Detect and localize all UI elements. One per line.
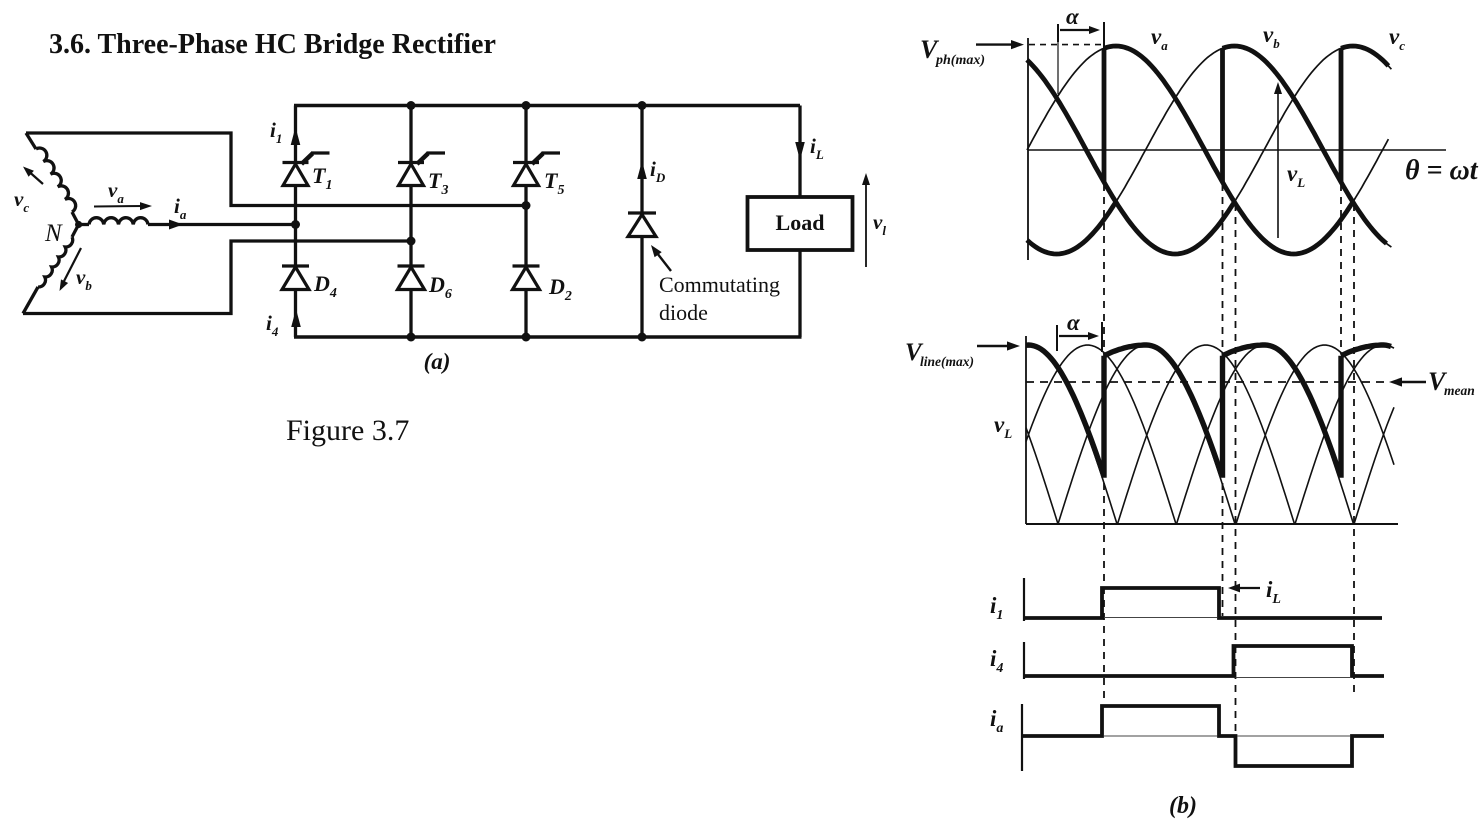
winding v_b (phase b coil)	[72, 225, 79, 238]
svg-text:iL: iL	[1266, 577, 1281, 607]
svg-text:vL: vL	[994, 412, 1012, 441]
i_4 waveform	[1024, 646, 1384, 676]
svg-text:vb: vb	[1263, 22, 1280, 51]
thin line-voltage humps	[1026, 428, 1058, 524]
svg-text:Load: Load	[776, 210, 825, 235]
curve thick v_a segment	[1104, 46, 1353, 254]
node: top rail junctions	[407, 101, 416, 110]
V_line(max) label and arrow	[977, 345, 1014, 347]
svg-text:3.6. Three-Phase HC Bridge Rec: 3.6. Three-Phase HC Bridge Rectifier	[49, 29, 496, 60]
svg-text:α: α	[1066, 4, 1080, 29]
svg-text:i1: i1	[990, 593, 1003, 623]
wire: negative bottom rail	[294, 335, 802, 339]
svg-text:Figure 3.7: Figure 3.7	[286, 414, 409, 447]
svg-text:vL: vL	[1287, 161, 1305, 190]
firing bars top plot	[1102, 48, 1107, 182]
svg-text:T3: T3	[428, 168, 448, 198]
label i_a with wire arrowhead	[169, 220, 183, 230]
curve v_b thin	[1027, 46, 1391, 254]
wire: commutating diode leg	[640, 106, 643, 338]
svg-text:i1: i1	[270, 118, 282, 146]
label: Commutating diode with pointer	[657, 253, 671, 271]
alpha marker top plot	[1057, 24, 1059, 42]
axis: top plot zero line theta axis	[1028, 149, 1446, 151]
svg-text:vl: vl	[873, 210, 886, 238]
node N (neutral)	[75, 221, 82, 228]
i_1 zero reference thin	[1104, 617, 1217, 619]
curve v_c thin	[1027, 46, 1391, 254]
svg-text:i4: i4	[266, 311, 279, 339]
dashed timing lines	[1103, 184, 1105, 704]
label v_L (load voltage) with arrow	[865, 178, 867, 267]
winding v_c (phase c coil)	[26, 133, 36, 149]
svg-text:D4: D4	[313, 271, 337, 301]
node: phase c to leg3	[522, 201, 531, 210]
node: phase b to leg2	[407, 237, 416, 246]
V_ph(max) label and arrow	[976, 43, 1018, 45]
wire: phase-b bottom wire from winding to bridge	[23, 241, 409, 314]
svg-text:i4: i4	[990, 646, 1003, 676]
wire: positive top rail	[294, 104, 800, 108]
label v_L with arrow (top plot)	[1277, 88, 1279, 238]
wire: bridge leg 1	[294, 106, 297, 338]
node: phase a to leg1	[291, 220, 300, 229]
curve thick v_b segments	[1027, 202, 1116, 254]
svg-text:θ = ωt: θ = ωt	[1405, 155, 1479, 186]
axis: middle plot vertical axis	[1025, 336, 1027, 524]
current arrow i_D	[637, 161, 647, 179]
wire: phase-a middle wire to bridge	[148, 223, 296, 226]
alpha marker middle plot	[1056, 325, 1058, 351]
svg-text:vb: vb	[76, 265, 92, 293]
svg-text:Commutating: Commutating	[659, 272, 780, 297]
curve thick v_c end segment	[1341, 46, 1388, 66]
commutating diode	[628, 215, 656, 237]
wire: load branch	[798, 106, 801, 198]
firing bars middle plot	[1101, 356, 1106, 478]
label i_L with arrow	[1234, 587, 1260, 589]
diode D4	[282, 266, 337, 301]
thyristor T3	[398, 153, 448, 198]
V_mean dashed level and label	[1026, 381, 1386, 383]
svg-text:diode: diode	[659, 300, 708, 325]
wire: bridge leg 2	[409, 106, 412, 338]
axis: middle plot baseline	[1026, 523, 1398, 525]
i_a zero reference thin	[1104, 735, 1217, 737]
thyristor T1	[283, 153, 333, 193]
i_1 waveform	[1024, 588, 1382, 618]
wire: phase-c top wire from winding to bridge	[26, 133, 524, 206]
svg-text:T5: T5	[544, 168, 564, 198]
curve v_L upper envelope thick v_c	[1027, 60, 1234, 254]
svg-text:D6: D6	[428, 272, 452, 302]
i_a waveform	[1022, 706, 1384, 766]
svg-text:va: va	[108, 178, 124, 206]
curve v_a thin	[1027, 46, 1388, 254]
svg-text:T1: T1	[312, 163, 332, 193]
svg-text:line(max): line(max)	[920, 354, 974, 369]
svg-text:vc: vc	[14, 187, 29, 215]
label v_a with arrow	[94, 205, 146, 208]
svg-text:α: α	[1067, 310, 1081, 335]
diode D2	[513, 266, 572, 304]
svg-text:va: va	[1151, 24, 1168, 53]
wire: bridge leg 3	[524, 106, 527, 338]
thyristor T5	[513, 153, 564, 198]
svg-text:(a): (a)	[424, 349, 451, 374]
i_a axis	[1021, 704, 1023, 771]
svg-text:(b): (b)	[1169, 793, 1197, 819]
svg-text:iD: iD	[650, 157, 666, 185]
node: bottom rail junctions	[407, 333, 416, 342]
svg-text:N: N	[44, 220, 63, 247]
svg-text:D2: D2	[548, 274, 572, 304]
svg-text:ph(max): ph(max)	[935, 53, 985, 68]
svg-text:ia: ia	[990, 706, 1003, 736]
current arrow i_4	[291, 309, 301, 327]
svg-text:iL: iL	[810, 134, 824, 162]
load box	[748, 197, 853, 250]
i_4 zero reference thin	[1236, 677, 1351, 679]
diode D6	[398, 266, 452, 302]
i_1 axis	[1023, 578, 1025, 621]
dashed peak level line	[1029, 44, 1102, 46]
svg-text:vc: vc	[1389, 24, 1405, 53]
thick v_L envelope middle plot	[1026, 345, 1104, 475]
i_4 axis	[1023, 642, 1025, 679]
current arrow i_1	[291, 127, 301, 145]
label v_b with arrow	[61, 248, 81, 287]
label v_c with arrow	[26, 169, 43, 184]
current arrow i_L	[795, 142, 805, 160]
svg-text:mean: mean	[1444, 383, 1475, 398]
svg-text:ia: ia	[174, 194, 187, 222]
winding v_a (phase a coil)	[89, 218, 148, 225]
axis: top plot vertical axis	[1027, 38, 1029, 260]
